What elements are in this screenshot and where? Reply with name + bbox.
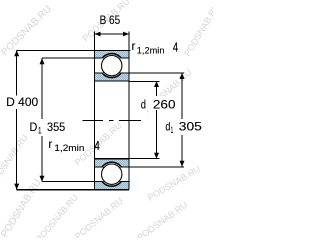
svg-text:1,2min: 1,2min bbox=[54, 143, 84, 153]
top edge (extends left as D400 extension) bbox=[17, 49, 131, 51]
B arrow right bbox=[123, 32, 129, 37]
svg-text:D: D bbox=[30, 122, 38, 134]
svg-text:355: 355 bbox=[47, 122, 65, 134]
svg-text:1: 1 bbox=[171, 125, 174, 135]
D1 arrow down bbox=[40, 176, 45, 182]
D1 dimension line bbox=[41, 58, 43, 182]
left edge / bore silhouette bbox=[94, 50, 96, 189]
d arrow up bbox=[154, 81, 159, 87]
ball bottom bbox=[102, 164, 122, 184]
groove arcs bottom section bbox=[100, 162, 124, 186]
svg-text:B 65: B 65 bbox=[100, 14, 121, 27]
outer ring top band bbox=[95, 50, 130, 58]
d1 arrow down bbox=[180, 161, 185, 167]
D400 dimension line bbox=[16, 50, 18, 189]
inner ring bottom band bbox=[95, 159, 130, 167]
D1 arrow up bbox=[40, 58, 45, 64]
svg-text:d: d bbox=[141, 97, 146, 111]
outer band bottom edge / D1 surface (extends left as D1 extension) bbox=[42, 57, 129, 59]
inner band top edge / d1 surface (extends right as d1 extension) bbox=[95, 72, 185, 74]
label d 260 bbox=[139, 96, 178, 110]
svg-text:D 400: D 400 bbox=[6, 97, 38, 109]
outer band top edge bottom section / D1 surface (extends left as D1 extension) bbox=[42, 181, 129, 183]
d dimension line bbox=[156, 81, 158, 159]
svg-text:4: 4 bbox=[95, 138, 100, 153]
axis centerline dash-dot bbox=[83, 120, 104, 122]
B arrow left bbox=[95, 32, 101, 37]
bore edge bottom section (extends right as d extension) bbox=[95, 158, 130, 160]
svg-text:r: r bbox=[132, 41, 136, 53]
label D1 355 bbox=[28, 119, 68, 136]
d1 dimension line bbox=[181, 73, 183, 167]
label D 400 bbox=[4, 96, 41, 110]
svg-text:1,2min: 1,2min bbox=[137, 45, 165, 55]
svg-text:4: 4 bbox=[173, 39, 178, 54]
D400 arrow up bbox=[14, 50, 19, 56]
B extension lines bbox=[95, 32, 130, 51]
svg-text:260: 260 bbox=[153, 97, 176, 111]
d1 arrow up bbox=[180, 73, 185, 79]
bore edge top section / d surface (extends right as d extension) bbox=[95, 80, 130, 82]
svg-text:r: r bbox=[48, 139, 52, 151]
svg-text:305: 305 bbox=[179, 119, 202, 133]
inner band bottom edge / d1 surface (extends right as d1 extension) bbox=[95, 166, 185, 168]
B dimension line bbox=[95, 33, 130, 35]
bottom edge (extends left as D400 extension) bbox=[17, 189, 129, 191]
svg-text:1: 1 bbox=[38, 126, 42, 136]
outer ring bottom band bbox=[95, 182, 130, 190]
label d1 305 bbox=[164, 119, 203, 135]
ball top bbox=[102, 55, 122, 75]
inner ring top band bbox=[95, 73, 130, 81]
D400 arrow down bbox=[14, 184, 19, 190]
d arrow down bbox=[154, 153, 159, 159]
groove arcs top section bbox=[100, 54, 124, 78]
bearing outline edges bbox=[17, 50, 184, 190]
watermark PODSNAB.RU tiles bbox=[0, 0, 221, 240]
right edge / bore silhouette bbox=[128, 50, 130, 189]
